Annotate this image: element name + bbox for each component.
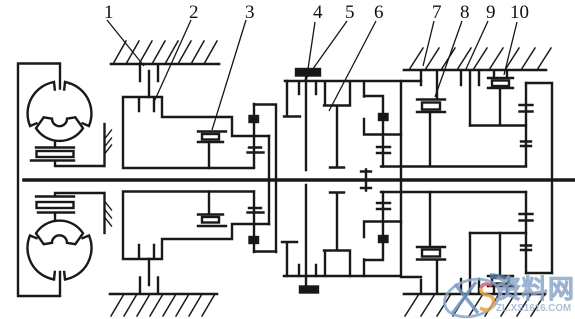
main shaft axis xyxy=(24,178,575,182)
output coupling shaft (bottom) xyxy=(525,192,527,273)
leader 10 xyxy=(504,22,517,75)
brake B1 plates (top) xyxy=(140,65,158,98)
clutch drum unit1 (bottom) xyxy=(123,192,269,260)
sun gear shaft (top) xyxy=(284,81,300,117)
drum wall unit2 xyxy=(305,76,307,171)
svg-text:6: 6 xyxy=(374,2,384,23)
ground hatching bottom-right xyxy=(404,293,545,296)
brake plates unit3 (top) xyxy=(421,71,437,100)
leader 4 xyxy=(308,22,315,69)
planet carrier (bottom) xyxy=(324,193,350,277)
band brake bar (bottom, filled) xyxy=(300,287,318,293)
band brake bar B2 (filled) xyxy=(296,69,320,76)
watermark swoosh xyxy=(490,276,516,290)
sun gear shaft (bottom) xyxy=(282,242,297,276)
ring gear right unit2 (top) xyxy=(364,82,401,167)
leader 2 xyxy=(154,20,191,102)
stator grounded wall (bottom) xyxy=(103,193,105,233)
stator coupling bars (top) xyxy=(36,146,74,148)
drum teeth unit1 (bottom) xyxy=(139,245,154,259)
drum top unit2 xyxy=(285,80,400,83)
svg-text:8: 8 xyxy=(460,2,470,23)
clutch drum unit1 (top) xyxy=(123,97,269,168)
torque converter arcs (bottom) xyxy=(27,236,91,280)
planet carrier (top) xyxy=(324,82,350,168)
clutch C7 pack (top) xyxy=(417,100,445,167)
svg-text:ZL.XS1616.COM: ZL.XS1616.COM xyxy=(496,303,571,314)
drum teeth unit1 (top) xyxy=(139,98,154,112)
svg-text:7: 7 xyxy=(432,2,442,23)
stem under band (top) xyxy=(54,141,56,147)
ground hatching top-left xyxy=(111,63,219,66)
brake plates mid (top) xyxy=(461,71,479,126)
drum unit3 left wall xyxy=(401,81,421,277)
stem over band (bottom) xyxy=(54,214,56,221)
ground hatching bottom-left xyxy=(110,293,217,296)
clutch C7 pack (bottom) xyxy=(417,192,445,260)
clutch C3 pack (bottom) xyxy=(198,192,226,227)
leader 9 xyxy=(466,21,488,69)
drum teeth unit2 xyxy=(299,82,316,94)
svg-text:3: 3 xyxy=(245,2,255,23)
svg-text:4: 4 xyxy=(313,2,323,23)
torque converter band (bottom) xyxy=(36,221,83,245)
watermark logo ellipse xyxy=(440,273,574,319)
svg-text:1: 1 xyxy=(104,2,114,23)
leader 7 xyxy=(423,21,434,66)
watermark letter X xyxy=(452,282,478,314)
svg-text:10: 10 xyxy=(510,2,529,23)
brake B1 plates (bottom) xyxy=(140,259,158,294)
watermark letter S xyxy=(480,288,493,310)
svg-text:资料网: 资料网 xyxy=(495,274,575,304)
ground hatching top-right xyxy=(404,69,546,72)
wire packs to drum (top) xyxy=(381,126,526,167)
clutch C10 pack (top) xyxy=(488,71,513,126)
drum teeth unit2 (bottom) xyxy=(299,265,316,276)
leader 6 xyxy=(329,21,376,111)
coupling shaft with spline (top) xyxy=(253,104,255,167)
clutch C10 pack (bottom) xyxy=(488,233,513,294)
svg-text:9: 9 xyxy=(486,2,496,23)
wire drum1 to drum2 (bottom) xyxy=(254,250,276,252)
casing of torque converter xyxy=(18,64,60,297)
wire to output drum (top) xyxy=(526,83,552,273)
wire drum1 to drum2 xyxy=(254,105,276,253)
drum wall unit2 (bottom) xyxy=(305,185,307,287)
wire packs to drum (bottom) xyxy=(381,192,526,233)
wire to output drum (bottom) xyxy=(526,272,552,274)
brake plates unit3 (bottom) xyxy=(421,260,437,294)
svg-text:2: 2 xyxy=(189,2,199,23)
stator grounded wall (top) xyxy=(103,124,105,166)
stator coupling bars (bottom) xyxy=(38,211,74,213)
axis spline connector xyxy=(361,170,371,191)
leader 1 xyxy=(107,20,144,66)
watermark letter S top xyxy=(481,284,492,288)
brake plates mid (bottom) xyxy=(461,233,479,294)
output coupling shaft (top) xyxy=(525,83,527,166)
leader 3 xyxy=(212,20,246,130)
torque converter pump/turbine arcs (top) xyxy=(28,82,92,126)
ring gear right unit2 (bottom) xyxy=(364,192,401,276)
leader 8 xyxy=(435,21,462,97)
leader 5 xyxy=(305,21,347,80)
torque converter reactor band (top) xyxy=(36,117,83,141)
svg-text:5: 5 xyxy=(345,2,355,23)
clutch C3 pack (top) xyxy=(198,132,269,225)
coupling shaft with spline (bottom) xyxy=(253,192,255,253)
drum bottom unit2 xyxy=(284,275,400,278)
